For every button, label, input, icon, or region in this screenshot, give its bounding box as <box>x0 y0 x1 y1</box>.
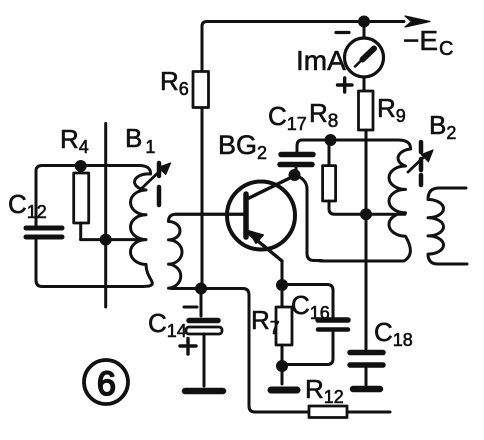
B1 core dashes <box>157 163 162 205</box>
svg-text:R12: R12 <box>305 374 344 407</box>
svg-text:−EC: −EC <box>403 25 453 60</box>
capacitor C16 <box>282 285 348 365</box>
label C17 <box>268 101 307 134</box>
node dot A <box>325 134 337 146</box>
svg-text:B2: B2 <box>429 110 456 143</box>
wire top supply rail <box>202 22 404 72</box>
figure number 6 <box>84 360 128 404</box>
node dot node-B <box>360 208 372 220</box>
transformer B1 secondary winding <box>169 214 244 288</box>
svg-text:6: 6 <box>97 365 116 403</box>
wire node-A rail with C17 corner and B2 primary top <box>297 140 411 152</box>
label R6 <box>160 66 189 99</box>
transistor BG2 <box>227 177 295 281</box>
B1 adjust arrow <box>141 163 171 189</box>
svg-text:C12: C12 <box>8 189 47 222</box>
node dot R7 bottom <box>276 360 288 372</box>
transformer B2 secondary winding <box>428 188 467 264</box>
wire vertical through tank <box>104 124 107 308</box>
transformer B2 primary winding <box>320 149 411 261</box>
label R12 <box>305 374 344 407</box>
svg-text:B1: B1 <box>125 123 155 157</box>
ground C14 <box>185 388 223 395</box>
node dot tap <box>100 234 112 246</box>
resistor R6 <box>193 72 209 108</box>
label C14 <box>148 308 187 341</box>
svg-text:R9: R9 <box>377 93 406 126</box>
capacitor C12 <box>26 228 62 237</box>
svg-text:ImA: ImA <box>296 45 346 76</box>
svg-text:C17: C17 <box>268 101 307 134</box>
label C16 <box>291 290 330 323</box>
node dot emitter junction <box>276 279 288 291</box>
svg-text:R4: R4 <box>60 124 89 157</box>
capacitor C18 <box>350 214 383 385</box>
node dot R4 top <box>75 160 87 172</box>
label 1mA <box>296 45 346 76</box>
wire junction to bottom rail <box>201 289 309 413</box>
ground R7 <box>271 366 297 390</box>
resistor R9 <box>359 91 374 130</box>
label R9 <box>377 93 406 126</box>
node dot collector <box>289 169 301 181</box>
ground C18 <box>353 386 380 393</box>
capacitor C17 <box>280 155 313 173</box>
label B1 <box>125 123 155 157</box>
resistor R12 <box>309 406 347 418</box>
svg-text:R6: R6 <box>160 66 189 99</box>
wire R6 down to junction <box>201 108 204 288</box>
transformer B1 tank outline with C12 leads and primary winding <box>36 166 152 287</box>
svg-text:C18: C18 <box>374 317 413 350</box>
svg-text:C14: C14 <box>148 308 187 341</box>
B2 core dashes <box>419 142 424 185</box>
resistor R4 <box>74 166 89 240</box>
node dot B1 bottom junction <box>195 283 207 295</box>
label B2 <box>429 110 456 143</box>
label R4 <box>60 124 89 157</box>
wire base <box>176 213 243 216</box>
svg-text:R8: R8 <box>309 98 338 132</box>
wire node-B to B2 tap <box>366 213 405 216</box>
resistor R8 <box>323 140 360 214</box>
wire bottom rail right <box>347 411 390 414</box>
svg-text:BG2: BG2 <box>218 130 267 163</box>
label C18 <box>374 317 413 350</box>
svg-text:C16: C16 <box>291 290 330 323</box>
label R7 <box>251 305 280 338</box>
label C12 <box>8 189 47 222</box>
label BG2 <box>218 130 267 163</box>
arrowhead supply to -Ec <box>405 16 430 27</box>
wire tank tap <box>81 238 144 241</box>
wire R9 bottom lead <box>365 130 368 214</box>
B2 adjust arrow <box>408 150 433 172</box>
wire collector to B2 bottom <box>295 175 323 261</box>
resistor R7 <box>276 285 292 366</box>
capacitor C14 electrolytic <box>180 289 222 387</box>
node dot on rail <box>358 16 370 28</box>
meter M 1mA <box>336 26 384 92</box>
label R8 <box>309 98 338 132</box>
label -Ec <box>403 25 453 60</box>
